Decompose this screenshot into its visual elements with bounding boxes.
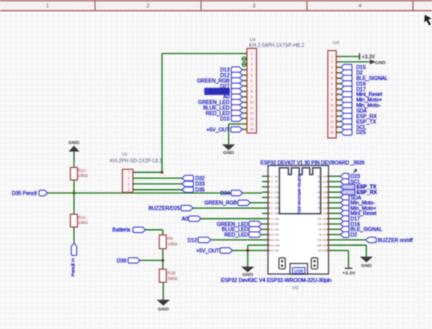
svg-text:8: 8 <box>331 93 333 97</box>
svg-text:23: 23 <box>323 212 327 216</box>
svg-text:GND: GND <box>158 306 169 312</box>
svg-text:17: 17 <box>323 180 327 184</box>
svg-text:4: 4 <box>251 68 253 72</box>
svg-text:5: 5 <box>331 77 333 81</box>
svg-text:D18: D18 <box>318 207 323 210</box>
svg-text:U3: U3 <box>333 40 339 45</box>
svg-text:D23: D23 <box>318 175 323 178</box>
svg-text:10: 10 <box>330 104 334 108</box>
svg-text:D22: D22 <box>318 181 323 184</box>
svg-text:D35 Pencil: D35 Pencil <box>12 191 37 197</box>
svg-text:6: 6 <box>251 79 253 83</box>
svg-text:4: 4 <box>331 71 333 75</box>
svg-text:R6: R6 <box>167 236 173 241</box>
svg-text:EN: EN <box>275 175 279 178</box>
svg-text:D15: D15 <box>220 116 230 122</box>
svg-text:20: 20 <box>323 196 327 200</box>
svg-text:12: 12 <box>330 114 334 118</box>
svg-text:9: 9 <box>251 95 253 99</box>
svg-text:29: 29 <box>323 243 327 247</box>
svg-text:GND: GND <box>275 244 281 247</box>
svg-text:9: 9 <box>331 98 333 102</box>
svg-text:10: 10 <box>250 101 254 105</box>
svg-text:KH-2.54PH-1X7SP-HB.2: KH-2.54PH-1X7SP-HB.2 <box>249 43 305 49</box>
svg-text:VN: VN <box>275 186 279 189</box>
svg-text:GND: GND <box>317 244 323 247</box>
svg-text:19: 19 <box>323 190 327 194</box>
svg-text:11: 11 <box>250 106 254 110</box>
svg-text:4: 4 <box>128 188 130 192</box>
svg-text:GND: GND <box>68 140 79 146</box>
svg-text:14: 14 <box>250 122 254 126</box>
svg-text:D34: D34 <box>220 191 230 197</box>
svg-text:D16: D16 <box>318 223 323 226</box>
svg-text:+5V_OUT: +5V_OUT <box>196 248 220 254</box>
svg-text:D25: D25 <box>275 213 280 216</box>
svg-text:ESP32-WROOM-32U: ESP32-WROOM-32U <box>297 175 302 214</box>
svg-text:3V3: 3V3 <box>318 250 323 253</box>
svg-text:TX0: TX0 <box>318 186 323 189</box>
svg-text:D12: D12 <box>188 238 198 244</box>
svg-text:+3.3V: +3.3V <box>342 270 356 276</box>
svg-text:VIN: VIN <box>275 250 279 253</box>
svg-text:VP: VP <box>275 181 279 184</box>
svg-text:12: 12 <box>270 233 274 237</box>
svg-text:D2: D2 <box>351 232 358 238</box>
svg-text:GREEN_RGB: GREEN_RGB <box>204 201 237 207</box>
svg-text:+3.3V: +3.3V <box>362 55 376 61</box>
svg-text:D33: D33 <box>275 207 280 210</box>
svg-text:2: 2 <box>331 60 333 64</box>
svg-text:10: 10 <box>270 222 274 226</box>
svg-text:1: 1 <box>128 171 130 175</box>
svg-text:Batteria: Batteria <box>112 228 130 234</box>
svg-text:5: 5 <box>251 74 253 78</box>
svg-text:GND: GND <box>361 263 372 269</box>
svg-text:D35: D35 <box>275 197 280 200</box>
svg-text:15: 15 <box>250 128 254 132</box>
svg-text:U1: U1 <box>122 151 128 156</box>
svg-text:D12: D12 <box>275 234 280 237</box>
svg-text:3: 3 <box>251 63 253 67</box>
svg-text:8: 8 <box>251 90 253 94</box>
svg-text:D25: D25 <box>356 130 366 136</box>
svg-text:14: 14 <box>270 243 274 247</box>
svg-text:24: 24 <box>323 217 327 221</box>
svg-text:R1B: R1B <box>167 270 175 275</box>
svg-text:15: 15 <box>330 131 334 135</box>
svg-text:D17: D17 <box>318 218 323 221</box>
svg-text:14: 14 <box>330 125 334 129</box>
svg-text:30: 30 <box>323 249 327 253</box>
svg-text:7: 7 <box>251 84 253 88</box>
svg-text:ESP32 DevKitC V4 ESP32-WROOM-3: ESP32 DevKitC V4 ESP32-WROOM-32U-30pin <box>221 278 332 284</box>
svg-text:3: 3 <box>331 66 333 70</box>
svg-text:26: 26 <box>323 228 327 232</box>
svg-text:RX0: RX0 <box>317 191 322 194</box>
svg-text:10kΩ: 10kΩ <box>78 173 88 178</box>
svg-text:D35: D35 <box>195 188 205 194</box>
svg-text:13: 13 <box>270 238 274 242</box>
svg-text:Pencil H: Pencil H <box>70 258 76 276</box>
svg-text:A0: A0 <box>182 217 188 223</box>
svg-text:GND: GND <box>223 150 234 156</box>
svg-text:D21: D21 <box>318 197 323 200</box>
svg-text:7: 7 <box>331 87 333 91</box>
svg-text:1: 1 <box>331 55 333 59</box>
svg-text:4: 4 <box>359 4 362 10</box>
svg-text:3: 3 <box>128 182 130 186</box>
svg-text:13: 13 <box>330 120 334 124</box>
svg-text:D14: D14 <box>275 228 280 231</box>
svg-text:D15: D15 <box>318 239 323 242</box>
svg-text:2: 2 <box>128 177 130 181</box>
svg-text:D34: D34 <box>275 191 280 194</box>
svg-text:D19: D19 <box>318 202 323 205</box>
svg-text:D32: D32 <box>275 202 280 205</box>
svg-text:10kΩ: 10kΩ <box>167 241 177 246</box>
svg-text:21: 21 <box>323 201 327 205</box>
svg-text:BUZZER/D25: BUZZER/D25 <box>148 206 180 212</box>
svg-text:U2: U2 <box>292 285 298 291</box>
svg-text:13: 13 <box>250 117 254 121</box>
svg-text:RED_LED: RED_LED <box>224 232 248 238</box>
svg-text:D13: D13 <box>275 239 280 242</box>
svg-text:U4: U4 <box>250 37 256 42</box>
svg-text:D26: D26 <box>275 218 280 221</box>
svg-text:D27: D27 <box>275 223 280 226</box>
svg-text:22: 22 <box>323 206 327 210</box>
svg-text:GND: GND <box>375 60 386 66</box>
svg-text:USB: USB <box>294 269 303 274</box>
svg-text:KH-2PH-SD-1X2P-L8.1: KH-2PH-SD-1X2P-L8.1 <box>110 159 162 165</box>
svg-text:10kΩ: 10kΩ <box>78 220 88 225</box>
svg-text:25: 25 <box>323 222 327 226</box>
svg-text:BUZZER on/off: BUZZER on/off <box>378 238 414 244</box>
svg-text:D39: D39 <box>117 258 127 264</box>
svg-text:11: 11 <box>270 228 273 232</box>
svg-text:2: 2 <box>147 4 150 10</box>
svg-text:3: 3 <box>253 4 256 10</box>
svg-text:2: 2 <box>251 57 253 61</box>
svg-text:390Ω: 390Ω <box>167 276 177 281</box>
svg-text:11: 11 <box>330 109 334 113</box>
svg-text:+5V_OUT: +5V_OUT <box>206 127 230 133</box>
svg-text:1: 1 <box>251 52 253 56</box>
svg-text:27: 27 <box>323 233 327 237</box>
svg-text:15: 15 <box>270 249 274 253</box>
svg-text:1: 1 <box>46 4 49 10</box>
svg-text:28: 28 <box>323 238 327 242</box>
svg-text:6: 6 <box>331 82 333 86</box>
svg-text:12: 12 <box>250 111 254 115</box>
svg-text:16: 16 <box>323 175 327 179</box>
svg-text:18: 18 <box>323 185 327 189</box>
